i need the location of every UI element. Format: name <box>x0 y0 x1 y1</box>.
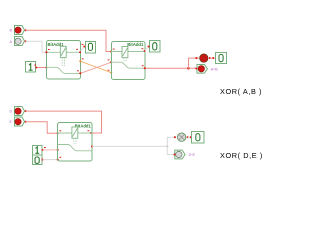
svg-text:XOR( D,E ): XOR( D,E ) <box>220 151 263 160</box>
svg-text:B: B <box>10 29 13 33</box>
svg-text:A^B: A^B <box>211 67 218 71</box>
svg-text:E: E <box>10 120 13 124</box>
svg-text:D^E: D^E <box>189 153 196 157</box>
svg-text:BitAdd1: BitAdd1 <box>127 42 144 47</box>
svg-text:D: D <box>10 110 13 114</box>
svg-text:A: A <box>10 40 13 44</box>
svg-text:XOR( A,B ): XOR( A,B ) <box>220 87 262 96</box>
